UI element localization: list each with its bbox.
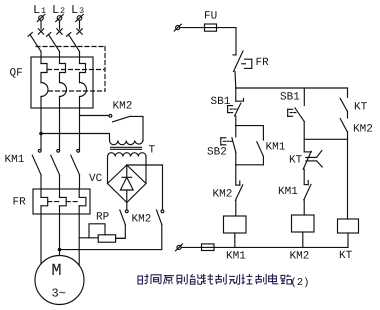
rectifier VC bridge diamond xyxy=(108,165,147,203)
QF pole2 fixed contact cross xyxy=(57,29,62,34)
contact KM2 NO self-hold xyxy=(340,119,347,140)
svg-text:L: L xyxy=(33,3,40,17)
rheostat RP xyxy=(79,224,125,242)
terminal control bottom xyxy=(176,244,183,251)
svg-text:L: L xyxy=(71,3,78,17)
svg-text:KM2: KM2 xyxy=(113,101,133,113)
svg-text:FR: FR xyxy=(256,57,270,69)
svg-text:T: T xyxy=(149,145,156,157)
label T xyxy=(149,145,156,157)
svg-text:KM1: KM1 xyxy=(266,142,286,154)
wire top rail right xyxy=(217,28,237,55)
button SB1 stop NC xyxy=(228,88,244,126)
wire node to right column xyxy=(304,138,347,140)
contact KT NO xyxy=(340,88,347,118)
wire L1 to breaker xyxy=(40,20,42,29)
terminal L3 xyxy=(76,14,84,21)
wire phase1 to transformer primary xyxy=(41,134,110,141)
wire bottom rail xyxy=(214,246,348,248)
svg-text:RP: RP xyxy=(96,212,110,224)
label KM1 self-hold xyxy=(266,142,286,154)
wire KM2 coil to rail xyxy=(302,232,304,247)
FR heater pole3 xyxy=(79,189,86,214)
label FR xyxy=(13,197,27,209)
contact KM1 main pole1 xyxy=(32,149,41,189)
label L3 xyxy=(71,3,84,17)
caption suffix (2) xyxy=(291,277,310,289)
label SB2 xyxy=(207,147,227,159)
label KM2 interlock xyxy=(213,189,233,201)
svg-text:M: M xyxy=(51,262,61,281)
label QF xyxy=(10,68,23,80)
contact KM2 NC interlock xyxy=(235,181,242,216)
svg-text:FU: FU xyxy=(204,11,217,23)
QF pole3 blade xyxy=(67,33,80,52)
label SB1 stop xyxy=(211,96,231,108)
label KT delayed contact xyxy=(289,155,303,167)
button SB1 brake NO xyxy=(288,88,305,139)
wire phase2 QF to KM1 xyxy=(59,108,61,149)
wire phase3 QF to KM1 xyxy=(79,108,81,149)
contact KM1 NC interlock xyxy=(304,181,311,216)
contact KM2 brake right xyxy=(60,210,164,250)
svg-text:VC: VC xyxy=(89,173,103,185)
svg-text:L: L xyxy=(52,3,59,17)
svg-text:KT: KT xyxy=(354,102,368,114)
label KM2 (primary switch) xyxy=(113,101,133,113)
contact KM1 main pole3 xyxy=(71,149,80,189)
FR linkage dashes xyxy=(48,201,79,203)
svg-text:KM2: KM2 xyxy=(132,214,152,226)
svg-text:QF: QF xyxy=(10,68,23,80)
wire secondary right to rectifier xyxy=(145,157,147,184)
svg-text:FR: FR xyxy=(13,197,27,209)
label FU xyxy=(204,11,217,23)
label KM2 coil xyxy=(290,251,310,263)
label KT right contact xyxy=(354,102,368,114)
QF pole3 fixed contact cross xyxy=(77,29,82,34)
coil KT xyxy=(338,219,359,233)
wire phase3 tap to KM2 contact xyxy=(80,115,109,117)
svg-text:KT: KT xyxy=(289,155,303,167)
contact KM1 main pole2 xyxy=(51,149,60,189)
rectifier VC diode xyxy=(120,165,133,203)
QF pole2 release elements xyxy=(60,52,67,109)
svg-text:SB1: SB1 xyxy=(280,92,300,104)
wire rectifier minus to left brake contact xyxy=(126,203,128,210)
label FR (control contact) xyxy=(256,57,270,69)
QF pole1 fixed contact cross xyxy=(38,29,43,34)
label KM1 interlock xyxy=(278,186,298,198)
svg-text:KM1: KM1 xyxy=(5,154,25,166)
caption 时间原则能耗制动控制电路(2) xyxy=(138,274,292,285)
contact KT NC delayed xyxy=(303,139,322,184)
svg-text:KM2: KM2 xyxy=(290,251,310,263)
wire phase1 FR to motor xyxy=(40,214,42,264)
svg-text:KM2: KM2 xyxy=(353,124,373,136)
label KM1 (main contacts) xyxy=(5,154,25,166)
label RP xyxy=(96,212,110,224)
QF pole1 blade xyxy=(28,33,41,52)
contact FR NC xyxy=(233,51,252,88)
wire to KM2 interlock xyxy=(235,165,237,185)
label KM2 (brake contacts) xyxy=(132,214,152,226)
wire bottom rail left xyxy=(181,246,201,248)
label SB1 brake xyxy=(280,92,300,104)
QF pole3 release elements xyxy=(80,52,87,109)
wire KM1 coil to rail xyxy=(234,233,236,247)
svg-text:(2): (2) xyxy=(291,277,310,289)
label KM2 right contact xyxy=(353,124,373,136)
fuse FU xyxy=(205,24,217,31)
wire right column to KT coil xyxy=(347,139,349,219)
FR heater pole1 xyxy=(41,189,48,214)
thermal relay FR box xyxy=(33,189,90,214)
svg-text:KM1: KM1 xyxy=(278,186,298,198)
QF pole2 blade xyxy=(47,33,60,52)
wire parallel branch bottom xyxy=(236,164,264,166)
svg-text:3~: 3~ xyxy=(52,287,66,301)
button SB2 start NO xyxy=(221,126,236,165)
wire phase2 FR to motor xyxy=(59,214,61,256)
wire L3 to breaker xyxy=(79,20,81,29)
terminal L2 xyxy=(56,14,64,21)
terminal control top xyxy=(174,24,181,31)
wire phase3 FR to motor xyxy=(78,214,80,266)
label L1 xyxy=(33,3,46,17)
contact KM2 primary switch xyxy=(109,114,143,140)
svg-text:KM2: KM2 xyxy=(213,189,233,201)
coil KM2 xyxy=(292,215,315,232)
label L2 xyxy=(52,3,65,17)
wire parallel branch top xyxy=(236,126,264,140)
svg-text:KM1: KM1 xyxy=(226,251,246,263)
transformer T secondary winding xyxy=(108,153,146,157)
coil KM1 xyxy=(224,216,247,233)
wire control branch rail xyxy=(236,87,348,89)
terminal L1 xyxy=(37,14,45,21)
FR heater pole2 xyxy=(60,189,67,214)
contact KM2 brake left xyxy=(116,210,128,238)
svg-text:SB2: SB2 xyxy=(207,147,227,159)
wire KT coil to rail xyxy=(347,233,349,247)
contact KM1 self-hold NO xyxy=(257,142,264,165)
wire L2 to breaker xyxy=(59,20,61,29)
wire secondary left to rectifier xyxy=(107,157,109,184)
wire top rail left xyxy=(180,27,205,29)
label VC xyxy=(89,173,103,185)
svg-text:KT: KT xyxy=(339,250,353,262)
QF linkage dashed lines xyxy=(36,47,105,92)
node phase2 junction xyxy=(58,248,62,252)
motor M xyxy=(35,256,84,305)
QF pole1 release elements xyxy=(41,52,48,109)
label KM1 coil xyxy=(226,251,246,263)
fuse bottom xyxy=(202,244,215,251)
svg-text:1: 1 xyxy=(41,6,46,16)
circuit breaker QF box xyxy=(31,57,93,108)
label KT coil xyxy=(339,250,353,262)
transformer T primary winding xyxy=(110,141,144,145)
wire phase1 QF to KM1 xyxy=(40,108,42,149)
transformer T core xyxy=(111,147,142,149)
wire rectifier plus to right brake contact xyxy=(127,165,163,210)
node phase1 junction xyxy=(39,132,43,136)
